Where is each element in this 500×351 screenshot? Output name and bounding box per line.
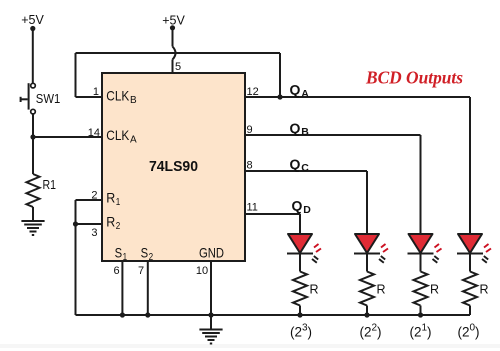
svg-text:SW1: SW1 — [36, 91, 61, 106]
svg-text:11: 11 — [247, 202, 258, 214]
svg-text:B: B — [130, 95, 137, 106]
pushbutton switch SW1 — [21, 83, 36, 114]
svg-text:(20): (20) — [457, 323, 479, 340]
svg-text:(22): (22) — [359, 323, 381, 340]
wire node to CLKA pin 14 — [33, 136, 102, 138]
svg-text:12: 12 — [247, 86, 259, 98]
resistor R (2^0 column) — [463, 272, 477, 306]
wire LED D1 to R — [299, 254, 301, 272]
svg-text:1: 1 — [116, 197, 121, 208]
junction node QA/feedback — [277, 94, 282, 99]
svg-text:R: R — [430, 283, 439, 297]
svg-text:7: 7 — [138, 265, 144, 277]
svg-text:S: S — [115, 245, 123, 261]
resistor R1 — [27, 174, 40, 207]
svg-text:3: 3 — [91, 227, 97, 239]
wire QA pin 12 to LED 2^0 — [245, 96, 470, 98]
svg-text:Q: Q — [290, 156, 301, 172]
resistor R (2^3 column) — [293, 272, 307, 306]
wire LED D4 to R — [469, 254, 471, 272]
wire SW1 bottom to node — [32, 114, 34, 137]
ground symbol (below pin 10) — [199, 330, 222, 344]
wire pin 3 stub — [76, 223, 103, 225]
svg-text:+5V: +5V — [21, 13, 44, 27]
resistor R (2^2 column) — [360, 272, 374, 306]
junction node LED1/rail — [297, 312, 302, 317]
svg-text:(21): (21) — [409, 323, 431, 340]
svg-text:R: R — [480, 283, 489, 297]
wire S2 pin 7 drop — [147, 261, 149, 315]
svg-text:1: 1 — [93, 86, 99, 98]
svg-text:GND: GND — [199, 245, 224, 261]
svg-text:D: D — [303, 204, 311, 216]
wire LED D2 to R — [366, 254, 368, 272]
wire QA vertical drop — [469, 97, 471, 234]
svg-text:8: 8 — [247, 160, 253, 172]
wire GND pin 10 drop — [210, 261, 212, 330]
+5V terminal dot (left) — [30, 26, 35, 31]
wire QD pin 11 — [245, 213, 300, 215]
LED D3 (2^1 column) — [408, 234, 442, 263]
junction node LED2/rail — [364, 312, 369, 317]
LED D2 (2^2 column) — [354, 234, 388, 263]
wire reset tie down to ground rail — [75, 224, 77, 315]
svg-text:6: 6 — [113, 265, 119, 277]
ground symbol (below R1) — [21, 221, 44, 235]
wire R1-R2 tie — [75, 200, 77, 224]
wire pin 2 stub — [76, 199, 103, 201]
wire hop over feedback rail — [173, 47, 176, 60]
svg-text:R: R — [106, 214, 115, 230]
junction node R1/R2 — [73, 221, 78, 226]
svg-text:A: A — [130, 135, 137, 146]
wire S1 pin 6 drop — [121, 261, 123, 315]
svg-text:CLK: CLK — [106, 88, 130, 104]
svg-text:R: R — [106, 190, 115, 206]
feedback rail QA to CLKB (top wire) — [76, 52, 281, 54]
svg-text:10: 10 — [196, 265, 208, 277]
svg-text:+5V: +5V — [162, 14, 185, 28]
wire rail right drop to QA — [279, 53, 281, 97]
wire R1 to ground — [32, 207, 34, 221]
wire R to rail (2^1) — [420, 306, 422, 316]
svg-text:14: 14 — [88, 127, 100, 139]
junction node LED3/rail — [418, 312, 423, 317]
svg-text:B: B — [301, 126, 309, 138]
svg-text:A: A — [301, 88, 309, 100]
wire +5V to SW1 top — [32, 29, 34, 84]
resistor R (2^1 column) — [414, 272, 428, 306]
svg-text:C: C — [301, 162, 309, 174]
wire R to rail (2^0) — [469, 306, 471, 316]
junction node S1/rail — [120, 312, 125, 317]
svg-text:74LS90: 74LS90 — [149, 159, 198, 175]
svg-text:R: R — [310, 283, 319, 297]
wire hop to pin 5 — [172, 60, 174, 74]
junction node S2/rail — [145, 312, 150, 317]
wire QB vertical drop — [420, 135, 422, 234]
svg-text:Q: Q — [290, 82, 301, 98]
LED D4 (2^0 column) — [457, 234, 491, 263]
wire node down to R1 — [32, 137, 34, 174]
svg-text:Q: Q — [292, 198, 303, 214]
svg-text:2: 2 — [116, 221, 121, 232]
wire +5V down to hop — [172, 28, 174, 47]
svg-text:Q: Q — [290, 120, 301, 136]
LED D1 (2^3 column) — [287, 234, 321, 263]
wire QC pin 8 — [245, 170, 367, 172]
svg-text:9: 9 — [247, 124, 253, 136]
svg-text:(23): (23) — [290, 323, 312, 340]
svg-text:2: 2 — [91, 190, 97, 202]
junction node GND/rail — [208, 312, 213, 317]
wire LED D3 to R — [420, 254, 422, 272]
svg-text:CLK: CLK — [106, 127, 130, 143]
wire QD vertical drop — [299, 214, 301, 234]
svg-text:BCD Outputs: BCD Outputs — [365, 68, 463, 88]
wire QB pin 9 — [245, 134, 421, 136]
+5V terminal dot (top) — [170, 25, 175, 30]
wire rail left drop — [75, 53, 77, 97]
wire to CLKB pin 1 — [76, 96, 103, 98]
wire R to rail (2^2) — [366, 306, 368, 316]
wire R to rail (2^3) — [299, 306, 301, 316]
svg-text:S: S — [141, 245, 149, 261]
wire QC vertical drop — [366, 171, 368, 234]
svg-text:R: R — [377, 283, 386, 297]
svg-text:5: 5 — [175, 61, 181, 73]
IC U1 74LS90 body — [102, 73, 245, 261]
ground rail (bottom wire) — [76, 314, 471, 316]
junction node SW1/CLKA/R1 — [30, 134, 35, 139]
svg-text:R1: R1 — [43, 178, 57, 192]
svg-text:2: 2 — [149, 252, 154, 263]
